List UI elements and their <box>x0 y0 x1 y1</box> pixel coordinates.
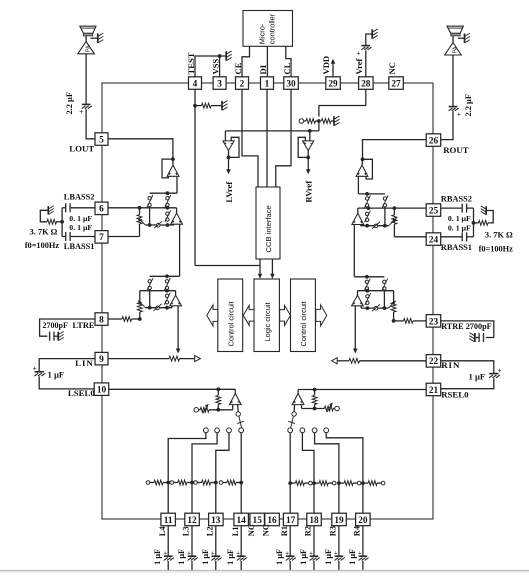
capacitor 2.2uF (right) <box>449 107 461 119</box>
capacitor 1uF (bottom) <box>334 550 345 560</box>
op-amp A4R (R select) <box>292 390 304 405</box>
wire A1R input down <box>357 176 359 194</box>
capacitor 2.2uF (left) <box>79 104 92 116</box>
wire SP2 to amp <box>452 36 454 43</box>
svg-text:1 µF: 1 µF <box>324 549 333 565</box>
pin 20 <box>356 513 371 526</box>
label LSELO <box>68 388 95 398</box>
svg-text:controller: controller <box>268 13 277 44</box>
switch S2Rc <box>365 293 371 305</box>
wire L gain line <box>194 404 233 413</box>
label 1uF (bottom) <box>348 549 357 565</box>
label Vref <box>354 58 364 74</box>
wire Vref to cap <box>365 50 367 77</box>
svg-text:+: + <box>498 366 502 374</box>
switch S1Lc <box>165 211 171 222</box>
block arrow logic to left control <box>243 305 254 325</box>
ground (speaker SP1) <box>98 33 104 43</box>
capacitor 0.1uF (pin24) <box>440 232 474 241</box>
wire pin to bottom cap <box>289 526 291 556</box>
wire pin22 volume line <box>332 358 428 364</box>
switch S2Ra <box>364 279 370 291</box>
pin 4 TEST <box>189 77 202 90</box>
variable resistor R treble (pot) <box>391 291 396 321</box>
label LOUT <box>69 144 94 154</box>
wire CCB to logic (right) <box>270 259 275 279</box>
svg-text:2.2 µF: 2.2 µF <box>65 92 74 115</box>
wire switch S1Rb down <box>384 207 386 225</box>
wire Vref rail <box>225 129 319 133</box>
capacitor 1uF (bottom) <box>187 550 198 560</box>
label LIN <box>75 358 94 368</box>
wire L1 contact to pin14 <box>239 433 243 514</box>
label 2.2 uF (left) <box>65 92 74 115</box>
wire R bass wiper line <box>361 218 397 229</box>
pin 5 LOUT <box>95 133 108 146</box>
label DI <box>258 64 268 74</box>
variable resistor L treble (pot) <box>137 291 142 319</box>
op-amp RVref buffer <box>303 141 314 151</box>
wire pin to bottom cap <box>191 526 193 556</box>
svg-text:1 µF: 1 µF <box>177 549 186 565</box>
svg-text:2.2 µF: 2.2 µF <box>464 94 473 117</box>
wire L3 contact to pin12 <box>190 433 217 514</box>
label 3.7K ohm left <box>30 227 58 236</box>
wire R treble upper line <box>358 289 394 293</box>
svg-text:0. 1 µF: 0. 1 µF <box>448 214 471 223</box>
node R1 contact <box>288 428 293 433</box>
wire switch S1Lb down <box>149 207 151 225</box>
label RTRE 2700pF <box>441 322 491 331</box>
svg-text:26: 26 <box>429 136 439 146</box>
ground (VSS/TEST) <box>226 51 232 61</box>
label 1uF (pin22) <box>469 371 486 381</box>
capacitor 0.1uF (pin6) <box>62 203 95 212</box>
resistor feedback R1 <box>290 481 312 486</box>
resistor 3.7K (left) <box>40 210 62 224</box>
svg-text:8: 8 <box>99 315 104 325</box>
resistor A4R feedback <box>312 390 317 409</box>
svg-text:12: 12 <box>187 516 197 526</box>
svg-text:+: + <box>211 550 215 557</box>
wire L bass node line <box>150 191 177 195</box>
pin 30 CL <box>284 77 299 90</box>
wire pin to bottom cap <box>240 526 242 556</box>
svg-text:LTRE: LTRE <box>72 321 94 330</box>
wire DI microcontroller to pin1 <box>266 46 268 77</box>
block arrow out of right control <box>316 305 327 326</box>
svg-text:LBASS2: LBASS2 <box>64 193 95 202</box>
svg-text:1 µF: 1 µF <box>48 370 65 380</box>
wire CCB to logic (left) <box>258 259 263 279</box>
label R1 <box>280 526 289 536</box>
wire CE pin2 to CCB <box>242 89 258 187</box>
svg-text:NC: NC <box>247 524 256 536</box>
variable resistor L bass (pot) <box>137 208 142 237</box>
resistor feedback R3 <box>339 481 361 486</box>
label RVref <box>303 181 313 203</box>
label RIN <box>441 360 460 370</box>
wire pin6 line <box>108 206 177 210</box>
svg-text:LSEL0: LSEL0 <box>68 388 95 398</box>
op-amp LVref buffer <box>223 141 234 151</box>
svg-text:+: + <box>285 550 289 557</box>
power amp PA2 (right) <box>445 43 462 55</box>
wire pin25 line <box>358 206 428 210</box>
svg-text:+: + <box>163 550 167 557</box>
label 1uF (bottom) <box>324 549 333 565</box>
svg-text:+: + <box>334 550 338 557</box>
wire R1 contact to pin17 <box>288 433 292 514</box>
op-amp A2L (L bass 2) <box>171 208 183 224</box>
capacitor 0.1uF (pin25) <box>440 204 474 213</box>
svg-text:+: + <box>236 550 240 557</box>
capacitor 1uF (bottom) <box>285 550 296 560</box>
wire pin to bottom cap <box>338 526 340 556</box>
wire R3 contact to pin19 <box>315 433 341 514</box>
wire CL pin30 to CCB <box>276 89 291 187</box>
label L4 <box>158 526 167 537</box>
svg-text:9: 9 <box>99 355 104 365</box>
wire LVref feedback <box>227 137 239 159</box>
capacitor 1uF (bottom) <box>163 550 174 560</box>
label R4 <box>353 525 362 536</box>
IC U1 body outline <box>102 83 433 519</box>
wire L treble upper line <box>140 289 176 293</box>
wire Vref rail to LVref buffer <box>224 131 226 141</box>
svg-text:1: 1 <box>265 79 270 89</box>
wire R bass node line <box>358 192 385 196</box>
CCB interface block <box>256 187 280 259</box>
wire pin to bottom cap <box>215 526 217 556</box>
wire CL microcontroller to pin30 <box>286 46 291 77</box>
wire TEST to logic circuit <box>195 265 260 267</box>
label 1uF (bottom) <box>177 549 186 565</box>
resistor feedback L2 <box>194 480 216 485</box>
wire pin to bottom cap <box>362 526 364 556</box>
label LVref <box>224 182 234 203</box>
control circuit block (left) <box>218 279 243 352</box>
wire bottom cap down <box>338 561 340 571</box>
svg-text:+: + <box>457 110 461 118</box>
svg-text:CL: CL <box>282 62 292 74</box>
svg-text:7: 7 <box>99 233 104 243</box>
block arrow logic to right control <box>280 305 291 325</box>
label 0.1uF pin25 <box>448 214 471 223</box>
switch S3R (R input select pole) <box>288 405 296 428</box>
svg-text:PA: PA <box>452 46 458 53</box>
label 1uF (bottom) <box>153 549 162 565</box>
label f0=100Hz right <box>479 244 514 253</box>
wire A1R feedback <box>363 159 373 179</box>
wire switch S2Lb down <box>149 290 151 308</box>
capacitor 2700pF (right) <box>440 321 494 342</box>
wire pin21 line <box>298 388 428 392</box>
pin 18 <box>307 513 322 526</box>
ground (Vref) <box>372 29 378 39</box>
wire pin7 line <box>108 236 140 238</box>
op-amp A3R (R treble) <box>352 291 364 306</box>
ground (speaker SP2) <box>465 33 471 43</box>
svg-text:4: 4 <box>193 79 198 89</box>
wire cap to pin26 <box>440 111 453 140</box>
label RBASS1 <box>441 243 472 252</box>
switch S1Rb <box>382 195 388 207</box>
svg-text:RTRE 2700pF: RTRE 2700pF <box>441 322 491 331</box>
wire TEST-VSS ground net <box>195 54 226 77</box>
label 1uF (bottom) <box>275 549 284 565</box>
label 0.1uF pin7 <box>69 223 92 232</box>
svg-text:17: 17 <box>286 516 296 526</box>
svg-text:20: 20 <box>358 516 368 526</box>
wire A3R output to volume <box>353 306 358 354</box>
svg-text:VDD: VDD <box>321 56 331 75</box>
svg-text:0. 1 µF: 0. 1 µF <box>448 224 471 233</box>
svg-text:1 µF: 1 µF <box>299 549 308 565</box>
wire bottom cap down <box>167 561 169 571</box>
svg-text:PA: PA <box>86 45 92 52</box>
svg-text:1 µF: 1 µF <box>201 549 210 565</box>
wire bottom cap down <box>240 561 242 571</box>
wire switch S2Rb down <box>383 290 385 308</box>
pin 10 LSEL0 <box>94 383 109 396</box>
wire bottom cap down <box>191 561 193 571</box>
node L1 contact <box>239 428 244 433</box>
svg-text:1 µF: 1 µF <box>153 549 162 565</box>
svg-text:24: 24 <box>429 235 439 245</box>
svg-text:CCB interface: CCB interface <box>264 205 273 252</box>
svg-text:5: 5 <box>99 135 104 145</box>
ground (Vref divider) <box>334 116 340 126</box>
wire pin5 to bass amp <box>109 139 175 161</box>
label R3 <box>329 526 338 536</box>
wire CE microcontroller to pin2 <box>242 46 250 77</box>
resistor feedback L4 <box>146 480 168 485</box>
label L2 <box>205 526 214 536</box>
wire L4 contact to pin11 <box>166 433 206 514</box>
svg-text:1 µF: 1 µF <box>226 549 235 565</box>
svg-text:L2: L2 <box>205 526 214 536</box>
wire R gain line <box>302 403 340 412</box>
wire SP1 to amp <box>85 36 87 42</box>
svg-text:2700pF: 2700pF <box>43 321 68 330</box>
svg-text:R3: R3 <box>329 526 338 536</box>
svg-text:+: + <box>79 108 83 116</box>
svg-text:DI: DI <box>258 64 268 74</box>
micro-controller U2 <box>243 11 293 47</box>
svg-text:30: 30 <box>286 79 296 89</box>
label L1 <box>231 526 240 536</box>
pin 9 LIN <box>95 352 108 365</box>
pin 22 RIN <box>426 355 441 368</box>
svg-text:L3: L3 <box>182 526 191 536</box>
svg-text:1 µF: 1 µF <box>469 371 486 381</box>
svg-text:RBASS1: RBASS1 <box>441 243 472 252</box>
pin 17 <box>283 513 298 526</box>
svg-text:Logic circuit: Logic circuit <box>263 302 272 341</box>
ground (3.7K left) <box>48 206 54 215</box>
wire pin to bottom cap <box>167 526 169 556</box>
ground (3.7K right) <box>481 206 487 215</box>
wire RVref output arrow <box>306 151 311 175</box>
wire R treble wiper line <box>361 300 396 311</box>
pin 12 <box>185 513 200 526</box>
pin 13 <box>209 513 224 526</box>
label L3 <box>182 526 191 536</box>
power amp PA1 (left) <box>78 41 95 53</box>
label RBASS2 <box>441 195 472 204</box>
wire PA2 output down <box>452 55 454 106</box>
capacitor 1uF (pin9) <box>33 359 96 389</box>
svg-text:22: 22 <box>429 357 439 367</box>
svg-text:L4: L4 <box>158 526 167 537</box>
switch S1La <box>165 195 171 207</box>
svg-text:3: 3 <box>217 79 222 89</box>
svg-text:f0=100Hz: f0=100Hz <box>25 241 60 250</box>
op-amp A1R (R bass 1) <box>356 165 368 176</box>
svg-text:VSS: VSS <box>210 59 220 75</box>
wire R4 contact to pin20 <box>326 433 365 514</box>
pin 1 DI <box>261 77 274 90</box>
svg-text:Control circuit: Control circuit <box>299 301 308 346</box>
pin 23 RTRE <box>426 315 441 328</box>
wire TEST pin4 down <box>193 89 197 265</box>
svg-text:L1: L1 <box>231 526 240 536</box>
resistor pin23 series <box>392 319 428 324</box>
svg-text:RSEL0: RSEL0 <box>441 390 469 400</box>
svg-text:2: 2 <box>240 79 245 89</box>
svg-text:R4: R4 <box>353 525 362 536</box>
op-amp A1L (L bass 1) <box>167 165 179 176</box>
pin 26 ROUT <box>426 134 441 147</box>
svg-text:RBASS2: RBASS2 <box>441 195 472 204</box>
svg-text:NC: NC <box>262 524 271 536</box>
svg-text:+: + <box>357 49 361 57</box>
svg-text:ROUT: ROUT <box>443 145 469 155</box>
svg-text:RVref: RVref <box>303 181 313 203</box>
pin 3 VSS <box>213 77 226 90</box>
svg-text:6: 6 <box>99 205 104 215</box>
op-amp A2R (R bass 2) <box>352 208 364 224</box>
svg-text:1 µF: 1 µF <box>275 549 284 565</box>
svg-text:0. 1 µF: 0. 1 µF <box>69 223 92 232</box>
resistor A4L feedback <box>216 389 221 410</box>
label 1uF (pin9) <box>48 370 65 380</box>
wire L treble wiper line <box>138 300 173 311</box>
switch S1Rc <box>365 211 371 223</box>
wire DI pin1 to CCB <box>266 89 268 187</box>
capacitor 1uF (pin22) <box>440 361 502 389</box>
svg-text:+: + <box>358 550 362 557</box>
ground (2700pF left) <box>58 331 64 340</box>
svg-text:+: + <box>33 365 37 373</box>
resistor pin8 series <box>108 317 142 322</box>
svg-text:R2: R2 <box>304 526 313 536</box>
wire speaker SP2 to ground <box>458 37 464 39</box>
wire R treble node line <box>354 275 384 279</box>
pin 14 <box>234 513 249 526</box>
svg-text:13: 13 <box>211 516 221 526</box>
control circuit block (right) <box>291 279 316 352</box>
svg-text:+: + <box>309 550 313 557</box>
label CE <box>233 62 243 74</box>
svg-text:LVref: LVref <box>224 182 234 203</box>
pin 24 RBASS1 <box>426 233 441 246</box>
label R2 <box>304 526 313 536</box>
label LBASS2 <box>64 193 95 202</box>
svg-text:Vref: Vref <box>354 58 364 74</box>
svg-text:Control circuit: Control circuit <box>227 301 236 346</box>
wire speaker SP1 to ground <box>91 37 98 39</box>
wire VDD arrow <box>331 59 336 77</box>
wire A2L to treble net <box>179 224 181 276</box>
wire pin10 line <box>108 387 236 391</box>
label 1uF (bottom) <box>201 549 210 565</box>
svg-text:NC: NC <box>387 62 397 74</box>
wire bottom cap down <box>289 561 291 571</box>
node Vref divider <box>299 119 334 124</box>
pin 16 <box>265 513 280 526</box>
svg-text:11: 11 <box>164 516 173 526</box>
label 2700pF left <box>43 321 68 330</box>
speaker SP1 (left) <box>80 26 96 36</box>
switch S3L (L input select pole) <box>236 405 244 428</box>
wire pin9 volume line <box>108 356 201 362</box>
svg-text:RIN: RIN <box>441 360 460 370</box>
capacitor 1uF (bottom) <box>358 550 369 560</box>
wire pin24 line <box>394 236 428 238</box>
wire A2R to treble net <box>353 225 355 277</box>
svg-text:+: + <box>187 550 191 557</box>
switch S2Lb <box>147 278 153 290</box>
pin 21 RSEL0 <box>426 383 441 396</box>
svg-text:19: 19 <box>334 516 344 526</box>
label NC <box>247 524 256 536</box>
node R3 contact <box>312 428 317 433</box>
svg-text:3. 7K Ω: 3. 7K Ω <box>485 230 513 239</box>
resistor 3.7K (right) <box>474 211 494 226</box>
pin 27 NC <box>389 77 404 90</box>
scan artifact strip <box>0 570 529 573</box>
label 2.2 uF (right) <box>464 94 473 117</box>
switch S2Lc <box>164 293 170 305</box>
svg-text:18: 18 <box>309 516 319 526</box>
capacitor 0.1uF (pin7) <box>62 232 95 241</box>
wire A1L output <box>172 160 174 166</box>
label NC (pin27) <box>387 62 397 74</box>
block arrow out of left control <box>207 305 218 326</box>
capacitor 1uF (bottom) <box>211 550 222 560</box>
resistor (TEST pulldown) <box>195 103 222 108</box>
label 0.1uF pin6 <box>69 214 92 223</box>
pin 6 LBASS2 <box>95 202 108 215</box>
pin 15 <box>250 513 265 526</box>
resistor feedback R4 <box>363 481 385 486</box>
svg-text:14: 14 <box>237 516 247 526</box>
svg-text:10: 10 <box>97 386 107 396</box>
switch S2Rb <box>382 279 388 291</box>
svg-text:LBASS1: LBASS1 <box>64 242 95 251</box>
wire Vref cap to ground <box>366 34 372 46</box>
label 3.7K ohm right <box>485 230 513 239</box>
resistor feedback L3 <box>170 480 192 485</box>
wire Vref rail to RVref buffer <box>309 131 311 141</box>
switch S2La <box>164 278 170 290</box>
logic circuit block <box>254 279 279 352</box>
resistor feedback R2 <box>314 481 336 486</box>
label VSS <box>210 59 220 75</box>
pin 29 VDD <box>326 77 341 90</box>
